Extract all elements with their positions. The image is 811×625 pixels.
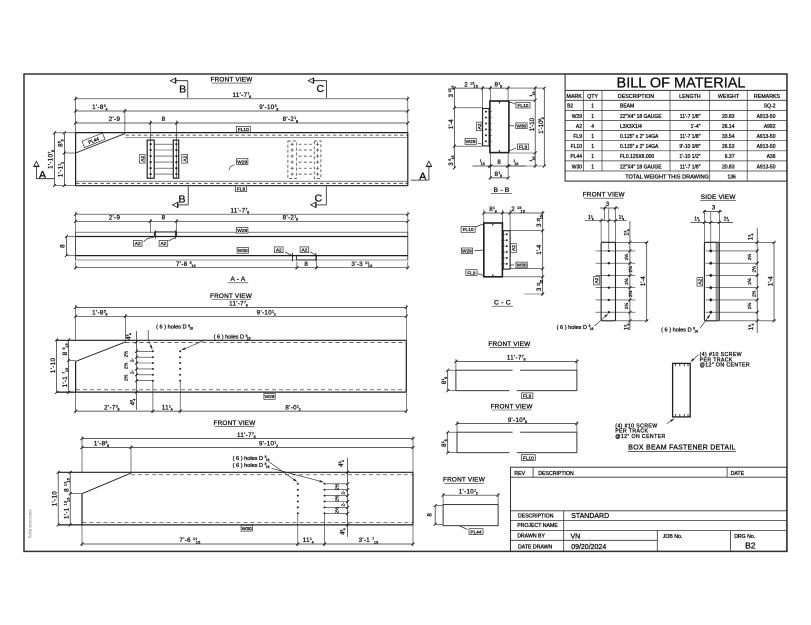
svg-text:A2: A2 <box>698 279 704 285</box>
svg-text:1: 1 <box>591 154 594 160</box>
svg-text:11'-778: 11'-778 <box>237 432 256 439</box>
svg-text:A2: A2 <box>182 156 188 162</box>
svg-text:09/20/2024: 09/20/2024 <box>571 544 606 551</box>
svg-text:1: 1 <box>591 114 594 120</box>
svg-text:11'-7 1/8": 11'-7 1/8" <box>680 114 701 120</box>
svg-text:@12" ON CENTER: @12" ON CENTER <box>615 434 665 440</box>
svg-text:A2: A2 <box>301 248 307 254</box>
svg-text:2½: 2½ <box>333 507 339 514</box>
svg-text:PL44: PL44 <box>570 154 582 160</box>
svg-text:DRAWN BY: DRAWN BY <box>517 534 545 540</box>
svg-text:4: 4 <box>591 124 594 130</box>
svg-text:2½: 2½ <box>746 254 752 261</box>
svg-text:A2: A2 <box>511 245 517 251</box>
svg-text:FRONT VIEW: FRONT VIEW <box>491 403 534 410</box>
svg-text:STANDARD: STANDARD <box>571 513 609 520</box>
svg-text:PL44: PL44 <box>470 529 482 535</box>
svg-text:B2: B2 <box>745 540 756 550</box>
svg-text:FRONT VIEW: FRONT VIEW <box>210 77 253 84</box>
svg-text:( 6 ) holes D 916: ( 6 ) holes D 916 <box>214 334 251 341</box>
svg-text:W29: W29 <box>572 114 583 120</box>
svg-text:1'-4": 1'-4" <box>691 124 701 130</box>
svg-text:REV: REV <box>514 471 525 477</box>
svg-text:FL10: FL10 <box>571 144 583 150</box>
svg-text:A2: A2 <box>276 248 282 254</box>
svg-text:26.53: 26.53 <box>722 144 735 150</box>
svg-text:B - B: B - B <box>493 187 509 194</box>
svg-text:B2: B2 <box>567 104 573 110</box>
svg-text:2'-738: 2'-738 <box>104 404 120 411</box>
svg-text:DRG No.: DRG No. <box>734 534 755 540</box>
svg-text:FL10: FL10 <box>518 103 529 109</box>
svg-text:A2: A2 <box>140 156 146 162</box>
svg-text:33.54: 33.54 <box>722 134 735 140</box>
svg-text:( 6 ) holes D 916: ( 6 ) holes D 916 <box>233 455 270 462</box>
svg-text:1'-4: 1'-4 <box>537 244 543 254</box>
svg-text:9'-10 3/8": 9'-10 3/8" <box>679 144 700 150</box>
svg-text:FL10: FL10 <box>463 227 474 233</box>
svg-text:WEIGHT: WEIGHT <box>718 94 740 100</box>
svg-text:2½: 2½ <box>122 351 128 358</box>
svg-text:FL9: FL9 <box>519 145 528 151</box>
svg-text:FRONT VIEW: FRONT VIEW <box>210 293 253 300</box>
svg-text:DATE DRAWN: DATE DRAWN <box>518 545 553 551</box>
svg-text:8: 8 <box>304 261 308 268</box>
svg-text:9'-1012: 9'-1012 <box>257 310 276 317</box>
svg-text:2'-9: 2'-9 <box>109 116 121 123</box>
svg-text:A2: A2 <box>160 241 166 247</box>
svg-text:8'-218: 8'-218 <box>283 215 299 222</box>
svg-text:1'-1012: 1'-1012 <box>459 488 478 495</box>
svg-text:2½: 2½ <box>751 266 757 273</box>
svg-text:1: 1 <box>591 144 594 150</box>
svg-text:( 6 ) holes D 916: ( 6 ) holes D 916 <box>233 462 270 469</box>
svg-text:BILL OF MATERIAL: BILL OF MATERIAL <box>617 76 746 92</box>
svg-text:DATE: DATE <box>731 471 745 477</box>
svg-text:1'-4: 1'-4 <box>449 119 455 129</box>
svg-text:2½: 2½ <box>623 278 629 285</box>
svg-text:W29: W29 <box>466 139 476 145</box>
svg-text:A: A <box>39 169 46 181</box>
svg-text:0.125" x 2" 14GA: 0.125" x 2" 14GA <box>620 134 659 140</box>
svg-text:1'-834: 1'-834 <box>92 104 108 111</box>
svg-text:2½: 2½ <box>627 266 633 273</box>
svg-text:11'-778: 11'-778 <box>507 355 526 362</box>
svg-text:20.83: 20.83 <box>722 164 735 170</box>
svg-text:2½: 2½ <box>751 290 757 297</box>
svg-text:1'-858: 1'-858 <box>94 441 110 448</box>
svg-text:1'-112: 1'-112 <box>58 161 65 177</box>
svg-text:2-: 2- <box>130 369 135 374</box>
svg-text:6.37: 6.37 <box>725 154 735 160</box>
svg-text:2½: 2½ <box>627 290 633 297</box>
svg-text:A913-50: A913-50 <box>757 114 776 120</box>
svg-text:11'-778: 11'-778 <box>233 92 252 99</box>
svg-text:QTY: QTY <box>587 94 598 100</box>
svg-text:1'-10: 1'-10 <box>530 117 536 131</box>
svg-text:A2: A2 <box>576 124 582 130</box>
svg-text:8'-012: 8'-012 <box>285 404 301 411</box>
svg-text:W30: W30 <box>238 248 248 254</box>
svg-text:JOB No.: JOB No. <box>663 534 683 540</box>
svg-text:W29: W29 <box>462 249 472 255</box>
svg-text:A913-50: A913-50 <box>757 164 776 170</box>
svg-text:FL9: FL9 <box>573 134 582 140</box>
svg-text:2½: 2½ <box>746 303 752 310</box>
svg-text:8: 8 <box>162 116 166 123</box>
svg-text:136: 136 <box>727 174 736 180</box>
svg-text:C: C <box>315 193 323 205</box>
svg-text:A913-50: A913-50 <box>757 144 776 150</box>
svg-text:1: 1 <box>591 134 594 140</box>
svg-text:DESCRIPTION: DESCRIPTION <box>538 471 574 477</box>
svg-text:A - A: A - A <box>231 276 246 283</box>
svg-text:FL10: FL10 <box>523 455 534 461</box>
svg-text:BOX BEAM FASTENER DETAIL: BOX BEAM FASTENER DETAIL <box>628 445 735 452</box>
svg-text:0.125" x 2" 14GA: 0.125" x 2" 14GA <box>620 144 659 150</box>
svg-text:TOTAL WEIGHT THIS DRAWING: TOTAL WEIGHT THIS DRAWING <box>625 174 709 180</box>
svg-text:A36: A36 <box>767 154 776 160</box>
svg-text:VN: VN <box>571 534 581 541</box>
svg-text:A992: A992 <box>764 124 776 130</box>
svg-text:DESCRIPTION: DESCRIPTION <box>618 94 654 100</box>
svg-text:22"X4" 18 GAUGE: 22"X4" 18 GAUGE <box>620 114 662 120</box>
svg-text:FL0.125X8.000: FL0.125X8.000 <box>620 154 654 160</box>
svg-text:@12" ON CENTER: @12" ON CENTER <box>700 363 750 369</box>
svg-text:W30: W30 <box>516 124 526 130</box>
svg-text:FL9: FL9 <box>237 187 246 193</box>
svg-text:( 6 ) holes D 916: ( 6 ) holes D 916 <box>557 324 594 331</box>
svg-text:9'-1038: 9'-1038 <box>508 417 527 424</box>
svg-text:FRONT VIEW: FRONT VIEW <box>583 192 626 199</box>
svg-text:2½: 2½ <box>333 483 339 490</box>
svg-text:L3X3X1/4: L3X3X1/4 <box>620 124 642 130</box>
svg-text:1'-10: 1'-10 <box>50 358 57 374</box>
svg-text:Tekla structures: Tekla structures <box>28 509 33 538</box>
svg-text:11'-778: 11'-778 <box>229 301 248 308</box>
svg-text:2½: 2½ <box>122 374 128 381</box>
svg-text:11'-7 1/8": 11'-7 1/8" <box>680 164 701 170</box>
svg-text:2-: 2- <box>341 502 346 507</box>
svg-text:W29: W29 <box>237 228 247 234</box>
svg-text:FRONT VIEW: FRONT VIEW <box>488 341 531 348</box>
svg-text:2½: 2½ <box>623 303 629 310</box>
svg-text:8: 8 <box>162 215 166 222</box>
svg-text:2-: 2- <box>130 358 135 363</box>
svg-text:FL9: FL9 <box>523 394 532 400</box>
svg-text:11'-7 1/8": 11'-7 1/8" <box>680 134 701 140</box>
svg-text:26.14: 26.14 <box>722 124 735 130</box>
svg-text:W30: W30 <box>572 164 583 170</box>
svg-text:2'-9: 2'-9 <box>109 215 121 222</box>
svg-text:FRONT VIEW: FRONT VIEW <box>443 477 486 484</box>
svg-text:1'-4: 1'-4 <box>769 276 775 286</box>
svg-text:A: A <box>419 170 426 182</box>
svg-text:1'-1058: 1'-1058 <box>538 117 545 134</box>
svg-text:W29: W29 <box>265 394 275 400</box>
svg-text:SQ-2: SQ-2 <box>764 104 776 110</box>
svg-text:1'-4: 1'-4 <box>641 276 647 286</box>
svg-text:2½: 2½ <box>333 495 339 502</box>
svg-text:BEAM: BEAM <box>620 104 634 110</box>
svg-text:1'-1078: 1'-1078 <box>48 149 55 168</box>
svg-text:1'-10 1/2": 1'-10 1/2" <box>679 154 700 160</box>
svg-text:MARK: MARK <box>567 94 583 100</box>
svg-text:FRONT VIEW: FRONT VIEW <box>213 420 256 427</box>
svg-text:2½: 2½ <box>746 278 752 285</box>
svg-text:A913-50: A913-50 <box>757 134 776 140</box>
svg-text:8'-218: 8'-218 <box>283 116 299 123</box>
svg-text:2½: 2½ <box>623 254 629 261</box>
svg-text:1'-10: 1'-10 <box>51 491 58 507</box>
svg-text:W29: W29 <box>237 159 247 165</box>
svg-text:22"X4" 18 GAUGE: 22"X4" 18 GAUGE <box>620 164 662 170</box>
svg-text:20.83: 20.83 <box>722 114 735 120</box>
svg-text:8: 8 <box>60 244 67 248</box>
svg-text:SIDE VIEW: SIDE VIEW <box>701 194 737 201</box>
svg-text:LENGTH: LENGTH <box>679 94 701 100</box>
svg-text:FL9: FL9 <box>467 270 476 276</box>
svg-text:B: B <box>178 193 185 205</box>
svg-text:REMARKS: REMARKS <box>754 94 781 100</box>
svg-text:C - C: C - C <box>494 300 511 307</box>
svg-text:B: B <box>179 83 186 95</box>
svg-text:1'-858: 1'-858 <box>92 310 108 317</box>
svg-text:A2: A2 <box>477 123 483 129</box>
svg-text:1: 1 <box>591 104 594 110</box>
svg-text:( 6 ) holes D 916: ( 6 ) holes D 916 <box>156 324 193 331</box>
svg-text:A2: A2 <box>135 241 141 247</box>
svg-text:A2: A2 <box>594 277 600 283</box>
svg-text:PROJECT NAME: PROJECT NAME <box>517 523 558 529</box>
svg-text:FL10: FL10 <box>238 127 249 133</box>
svg-text:2-: 2- <box>341 490 346 495</box>
svg-text:9'-1038: 9'-1038 <box>259 104 278 111</box>
svg-text:9'-1012: 9'-1012 <box>259 441 278 448</box>
svg-text:( 6 ) holes D 916: ( 6 ) holes D 916 <box>661 327 698 334</box>
svg-text:11'-778: 11'-778 <box>231 207 250 214</box>
svg-text:C: C <box>317 83 325 95</box>
svg-text:2½: 2½ <box>122 363 128 370</box>
svg-text:W30: W30 <box>517 263 527 269</box>
svg-text:1: 1 <box>591 164 594 170</box>
svg-text:DESCRIPTION: DESCRIPTION <box>518 513 554 519</box>
svg-text:W30: W30 <box>242 526 252 532</box>
